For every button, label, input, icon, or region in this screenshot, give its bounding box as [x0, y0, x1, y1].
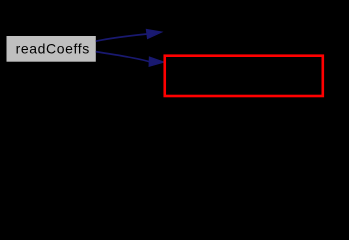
truncated node (red box): [165, 56, 323, 96]
edge to hidden node (upper arrow): [96, 29, 162, 41]
svg-text:readCoeffs: readCoeffs: [16, 41, 90, 57]
node readCoeffs: [7, 36, 96, 62]
edge to truncated node (lower arrow): [96, 52, 164, 67]
